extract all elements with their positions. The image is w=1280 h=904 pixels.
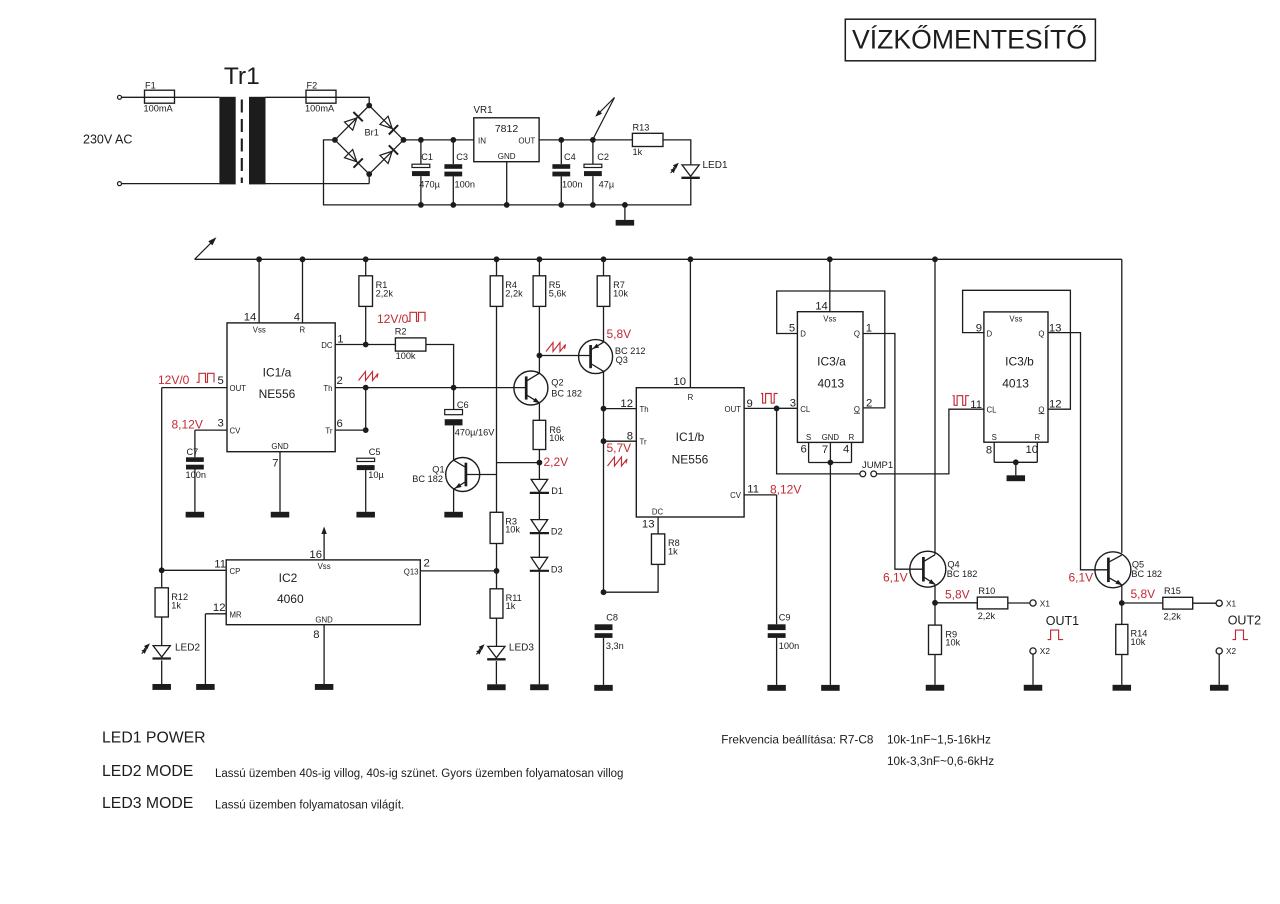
diode D3 (530, 557, 563, 574)
svg-text:10k-1nF~1,5-16kHz: 10k-1nF~1,5-16kHz (887, 733, 991, 747)
svg-text:10: 10 (1026, 444, 1039, 456)
fuse F1 (144, 80, 175, 113)
wire R2 to Th node (426, 345, 454, 388)
capacitor C1 (412, 140, 441, 205)
svg-text:2,2k: 2,2k (376, 289, 394, 299)
label frequency range 2 (887, 754, 994, 768)
wire Q3 base (539, 355, 590, 357)
svg-text:100n: 100n (779, 641, 799, 651)
label LED3 MODE (102, 795, 193, 812)
svg-text:100n: 100n (186, 470, 206, 480)
svg-text:10k-3,3nF~0,6-6kHz: 10k-3,3nF~0,6-6kHz (887, 754, 994, 768)
svg-text:1: 1 (866, 323, 872, 335)
svg-text:47µ: 47µ (599, 179, 615, 189)
svg-text:1: 1 (337, 333, 343, 345)
wire R7 to Q3 emitter (603, 306, 605, 342)
pin 16 Vss IC2 arrow (309, 527, 326, 562)
svg-text:230V AC: 230V AC (83, 133, 132, 147)
svg-text:4013: 4013 (817, 377, 844, 391)
transistor Q2 BC182 (514, 371, 582, 405)
ground D3 (530, 684, 549, 690)
svg-text:13: 13 (642, 519, 655, 531)
svg-text:Th: Th (640, 405, 649, 414)
svg-text:10k: 10k (1131, 637, 1146, 647)
svg-text:R2: R2 (395, 326, 407, 336)
svg-text:NE556: NE556 (672, 453, 709, 467)
svg-text:F1: F1 (145, 80, 156, 90)
wire Q1 emitter to ground (453, 489, 455, 512)
transistor Q4 BC182 (910, 551, 978, 587)
label 230V AC (83, 133, 132, 147)
pin 12 MR IC2 (205, 602, 226, 684)
svg-text:JUMP1: JUMP1 (862, 460, 893, 471)
title box VÍZKŐMENTESÍTŐ (845, 19, 1095, 61)
LED LED3 (476, 643, 534, 660)
pin 2 Th IC1/a wire (335, 375, 526, 390)
svg-text:VÍZKŐMENTESÍTŐ: VÍZKŐMENTESÍTŐ (852, 25, 1087, 55)
label frequency note (721, 733, 874, 747)
pin 7 GND IC1/a (272, 452, 280, 512)
svg-text:10µ: 10µ (368, 470, 384, 480)
wire R15 to X1 (1193, 602, 1216, 604)
label 8,12V at CV (172, 417, 203, 431)
pin 1 DC IC1/a wire (335, 333, 395, 347)
pin 1 Q IC3/a wire (863, 323, 923, 570)
LED LED2 (142, 643, 201, 659)
svg-text:OUT: OUT (230, 384, 247, 393)
resistor R15 (1163, 586, 1193, 621)
svg-text:D: D (987, 330, 993, 339)
svg-text:R15: R15 (1164, 586, 1181, 596)
jumper JUMP1 (860, 460, 893, 477)
svg-text:100mA: 100mA (305, 104, 335, 114)
pin 9 OUT IC1/b wire (744, 398, 797, 412)
wire R12 to LED2 (161, 617, 163, 646)
pin 3 CL IC3/a wire (777, 398, 798, 410)
node C3 top (450, 137, 456, 143)
node C1 bottom (418, 202, 424, 208)
svg-text:LED2 MODE: LED2 MODE (102, 763, 193, 780)
svg-text:8: 8 (313, 629, 319, 641)
capacitor C9 (768, 613, 800, 685)
svg-text:10: 10 (673, 376, 686, 388)
svg-text:CL: CL (800, 405, 811, 414)
svg-text:MR: MR (230, 611, 242, 620)
svg-text:IC1/b: IC1/b (676, 430, 705, 444)
svg-text:12V/0: 12V/0 (377, 312, 409, 326)
wire R6 to 2,2V node (537, 450, 543, 480)
wire F2 to bridge AC top (336, 97, 369, 103)
svg-text:Br1: Br1 (365, 127, 379, 137)
label 8,12V at CV (770, 483, 801, 497)
label LED2 description (215, 768, 623, 780)
svg-text:100n: 100n (562, 179, 582, 189)
pin 8 GND IC2 (313, 625, 324, 684)
svg-text:Vss: Vss (823, 314, 836, 323)
transformer Tr1 (219, 63, 265, 184)
label 5,8V at Q4 (945, 587, 970, 601)
pin 8 Tr IC1/b wire (604, 431, 637, 443)
resistor R2 (395, 326, 426, 361)
wire Q3 collector down (601, 371, 607, 592)
transistor Q1 BC182 (412, 458, 496, 492)
svg-text:OUT1: OUT1 (1046, 614, 1079, 628)
svg-text:IC3/b: IC3/b (1005, 355, 1034, 369)
op-amp-timer IC1/a NE556 (227, 323, 335, 452)
svg-text:14: 14 (815, 301, 828, 313)
svg-text:3: 3 (790, 398, 796, 410)
AC input terminal top (118, 95, 122, 99)
pin 5 OUT IC1/a wire (162, 375, 227, 570)
label 12V/0 at OUT (158, 373, 214, 387)
svg-text:C3: C3 (456, 152, 468, 162)
label OUT2 (1228, 614, 1261, 640)
svg-text:12: 12 (1049, 399, 1062, 411)
wire R4 column down (497, 306, 540, 512)
svg-text:C6: C6 (457, 400, 469, 410)
ground power supply (616, 205, 635, 226)
svg-text:2,2k: 2,2k (978, 611, 996, 621)
svg-text:CL: CL (987, 406, 998, 415)
label frequency range 1 (887, 733, 991, 747)
svg-text:3,3n: 3,3n (606, 641, 624, 651)
svg-text:2: 2 (424, 557, 430, 569)
resistor R13 (632, 123, 663, 157)
timer IC1/b NE556 (636, 388, 744, 517)
svg-text:CV: CV (230, 426, 242, 435)
pin 12 Qbar IC3/b (1049, 399, 1062, 411)
svg-text:1k: 1k (171, 600, 181, 610)
ground C7 (186, 512, 205, 518)
label pulse at OUT (761, 394, 778, 404)
pins 8 10 S R IC3/b (986, 442, 1038, 475)
LED LED1 (670, 160, 728, 178)
svg-text:GND: GND (315, 615, 333, 624)
transistor Q5 BC182 (1095, 552, 1162, 588)
svg-text:GND: GND (498, 152, 516, 161)
wire R5 to Q2 collector (537, 306, 543, 372)
capacitor C7 (186, 447, 206, 512)
svg-text:R13: R13 (633, 123, 650, 133)
svg-text:OUT: OUT (725, 405, 742, 414)
pin 13 Q IC3/b wire (1048, 323, 1108, 570)
svg-text:100k: 100k (396, 351, 416, 361)
svg-text:IC3/a: IC3/a (817, 354, 846, 368)
svg-text:BC 182: BC 182 (1131, 569, 1162, 579)
pins 6 7 4 S GND R IC3/a (800, 442, 851, 465)
svg-text:1k: 1k (668, 547, 678, 557)
svg-text:100n: 100n (455, 179, 475, 189)
ground LED2 (152, 684, 171, 690)
svg-text:6,1V: 6,1V (883, 570, 908, 584)
label 12V/0 at DC (377, 312, 425, 326)
label 2,2V (544, 455, 569, 469)
resistor R1 (359, 256, 393, 344)
svg-text:Q: Q (854, 405, 860, 414)
wire node to IC2 CP (162, 569, 227, 571)
label LED2 MODE (102, 763, 193, 780)
label LED3 description (215, 800, 404, 812)
svg-text:DC: DC (652, 508, 664, 517)
svg-text:D3: D3 (551, 564, 563, 574)
svg-text:GND: GND (822, 433, 840, 442)
svg-text:BC 182: BC 182 (947, 569, 978, 579)
svg-text:LED2: LED2 (175, 643, 200, 654)
svg-text:4013: 4013 (1002, 376, 1029, 390)
ground IC1/a pin7 (271, 512, 290, 518)
pin 9 D IC3/b loop (963, 290, 1071, 409)
svg-text:470µ: 470µ (419, 179, 440, 189)
flip-flop IC3/a 4013 (797, 312, 863, 443)
ground R9 (926, 685, 945, 691)
svg-text:16: 16 (309, 549, 322, 561)
svg-text:Vss: Vss (1009, 314, 1022, 323)
resistor R3 (490, 512, 520, 543)
regulator VR1 7812 (474, 105, 540, 162)
resistor R8 (651, 534, 679, 565)
svg-text:2: 2 (337, 375, 343, 387)
svg-text:2,2k: 2,2k (1164, 611, 1182, 621)
svg-text:IC1/a: IC1/a (263, 366, 292, 380)
svg-text:Q: Q (854, 330, 860, 339)
pin 2 Qbar IC3/a (866, 397, 872, 409)
wire node to R15 (1122, 602, 1163, 604)
AC input terminal bottom (118, 182, 122, 186)
wire R10 to X1 (1008, 602, 1030, 604)
svg-text:5: 5 (218, 375, 224, 387)
node C2 top (590, 137, 596, 143)
svg-text:2,2k: 2,2k (505, 289, 523, 299)
svg-text:Q13: Q13 (404, 567, 419, 576)
capacitor C8 (595, 613, 624, 685)
svg-text:CP: CP (230, 567, 241, 576)
wire AC neutral to transformer primary (122, 183, 220, 185)
pin 13 DC IC1/b (642, 517, 658, 534)
terminal X1 OUT1 (1030, 598, 1050, 608)
svg-text:F2: F2 (307, 80, 318, 90)
svg-text:10k: 10k (549, 433, 564, 443)
svg-text:8,12V: 8,12V (770, 483, 801, 497)
wire X2 to ground (1032, 654, 1034, 685)
svg-text:8,12V: 8,12V (172, 417, 203, 431)
wire Q2 base from Th (0, 0, 1, 1)
terminal X2 OUT1 (1030, 646, 1050, 656)
pin 3 CV IC1/a wire (195, 418, 227, 458)
pin 11 CP IC2 (214, 559, 226, 571)
svg-text:C8: C8 (606, 613, 618, 623)
label 6,1V at Q5 (1069, 570, 1094, 584)
svg-text:6,1V: 6,1V (1069, 570, 1094, 584)
diode D1 (530, 479, 563, 496)
label 6,1V at Q4 (883, 570, 908, 584)
svg-text:Vss: Vss (253, 326, 266, 335)
svg-text:4060: 4060 (277, 592, 304, 606)
+12V rail (195, 259, 1122, 553)
svg-text:C7: C7 (187, 447, 199, 457)
svg-text:LED3 MODE: LED3 MODE (102, 795, 193, 812)
label OUT1 (1046, 614, 1079, 640)
resistor R7 (597, 256, 628, 306)
svg-text:Q: Q (1038, 405, 1044, 414)
svg-text:C9: C9 (779, 613, 791, 623)
resistor R10 (977, 586, 1008, 621)
label sawtooth at Th (359, 372, 379, 381)
counter IC2 4060 (226, 560, 420, 625)
svg-text:13: 13 (1049, 323, 1062, 335)
wire IC3/a GND to ground (829, 463, 831, 685)
svg-text:NE556: NE556 (259, 387, 296, 401)
svg-text:100mA: 100mA (144, 104, 174, 114)
capacitor C2 (584, 140, 615, 205)
svg-text:14: 14 (244, 311, 257, 323)
svg-text:BC 182: BC 182 (412, 474, 443, 484)
wire bridge minus to ground rail (324, 140, 691, 205)
svg-text:2,2V: 2,2V (544, 455, 569, 469)
pin 4 R IC1/a (294, 256, 306, 323)
capacitor C3 (444, 140, 475, 205)
svg-text:5,6k: 5,6k (549, 289, 567, 299)
svg-text:5,8V: 5,8V (1131, 587, 1156, 601)
pin 2 Q13 IC2 (424, 557, 430, 569)
wire D2 to D3 (538, 534, 540, 557)
node OUT to CP (159, 567, 165, 573)
+12V rail arrow (195, 237, 217, 259)
ground C5 (356, 512, 375, 518)
label sawtooth at Q3 base (546, 343, 566, 352)
svg-text:LED1 POWER: LED1 POWER (102, 730, 206, 747)
svg-text:C2: C2 (597, 152, 609, 162)
node C4 top (558, 137, 564, 143)
wire OUT node to JUMP1 (777, 408, 860, 474)
ground X2 OUT2 (1210, 685, 1229, 691)
svg-text:X1: X1 (1040, 598, 1051, 608)
svg-text:Tr: Tr (325, 426, 332, 435)
svg-text:2: 2 (866, 397, 872, 409)
diode D2 (530, 520, 563, 537)
svg-text:IC2: IC2 (279, 571, 298, 585)
flip-flop IC3/b 4013 (984, 312, 1048, 442)
wire C6 to Q1 collector (453, 425, 455, 460)
wire R3 to R11 node (494, 544, 500, 589)
ground C8 (594, 685, 613, 691)
svg-text:Q4: Q4 (947, 560, 959, 570)
wire R14 to ground (1121, 655, 1123, 685)
wire R13 to LED1 (663, 140, 691, 165)
svg-text:5,7V: 5,7V (607, 441, 632, 455)
svg-text:R10: R10 (978, 586, 995, 596)
svg-text:R: R (300, 326, 306, 335)
svg-text:470µ/16V: 470µ/16V (455, 427, 495, 437)
bridge rectifier Br1 (332, 103, 406, 177)
svg-text:11: 11 (747, 483, 759, 495)
svg-text:C1: C1 (421, 152, 433, 162)
svg-text:LED1: LED1 (703, 160, 728, 171)
wire R8 to C8 node (601, 564, 659, 595)
wire D3 to ground (538, 572, 540, 684)
resistor R14 (1116, 603, 1148, 655)
svg-text:8: 8 (986, 445, 992, 457)
resistor R9 (929, 603, 961, 655)
ground LED3 (487, 684, 506, 690)
svg-text:VR1: VR1 (474, 105, 493, 116)
node C3 bottom (450, 202, 456, 208)
svg-text:10k: 10k (945, 638, 960, 648)
ground R14 (1113, 685, 1132, 691)
label LED1 POWER (102, 730, 206, 747)
ground Q1 (444, 512, 463, 518)
svg-text:R: R (688, 393, 694, 402)
svg-text:Vss: Vss (318, 562, 331, 571)
wire VR1 GND to ground rail (506, 162, 508, 205)
svg-text:R: R (1034, 433, 1040, 442)
wire Q4 emitter node (932, 584, 938, 605)
svg-text:Tr: Tr (640, 438, 647, 447)
node C4 bottom (558, 202, 564, 208)
wire transformer secondary bottom to bridge AC bottom (266, 176, 370, 184)
wire D1 to D2 (538, 494, 540, 520)
svg-text:Q: Q (1038, 330, 1044, 339)
pin 5 D IC3/a loop (777, 291, 885, 408)
wire X2 to ground OUT2 (1218, 654, 1220, 685)
svg-text:C5: C5 (369, 447, 381, 457)
svg-text:Frekvencia beállítása: R7-C8: Frekvencia beállítása: R7-C8 (721, 733, 874, 747)
wire node to R10 (935, 602, 977, 604)
wire Th to Tr link (365, 388, 367, 431)
svg-text:10k: 10k (505, 524, 520, 534)
resistor R11 (490, 589, 522, 618)
capacitor C4 (552, 140, 582, 205)
capacitor C6 (445, 388, 495, 438)
svg-text:12: 12 (620, 398, 633, 410)
svg-text:Lassú üzemben folyamatosan vil: Lassú üzemben folyamatosan világít. (215, 800, 404, 812)
svg-text:GND: GND (271, 442, 289, 451)
pin 14 Vss IC3/a (815, 256, 832, 312)
svg-text:6: 6 (800, 444, 806, 456)
svg-text:Q2: Q2 (551, 378, 563, 388)
transistor Q3 BC212 (579, 340, 646, 374)
svg-text:5,8V: 5,8V (945, 587, 970, 601)
wire IC2 Q13 to node (420, 570, 496, 572)
label 5,8V at Q3 (607, 327, 632, 341)
svg-text:10k: 10k (613, 289, 628, 299)
label pulse at CL IC3/b (953, 396, 970, 406)
svg-text:IN: IN (478, 136, 486, 145)
svg-text:5: 5 (789, 323, 795, 335)
svg-text:D1: D1 (551, 486, 563, 496)
wire LED2 to ground (161, 660, 163, 684)
svg-text:CV: CV (730, 491, 742, 500)
svg-text:5,8V: 5,8V (607, 327, 632, 341)
pin 14 Vss IC1/a (244, 256, 262, 323)
wire F1 to transformer primary (175, 96, 220, 98)
off-sheet arrow 12V rail tap (593, 98, 615, 140)
svg-text:LED3: LED3 (509, 643, 534, 654)
svg-text:X2: X2 (1226, 646, 1237, 656)
terminal X1 OUT2 (1216, 598, 1236, 608)
ground IC3/a (821, 685, 840, 691)
svg-text:Th: Th (323, 384, 332, 393)
pin 11 CL IC3/b (970, 399, 982, 411)
wire R9 to ground (934, 655, 936, 685)
label 5,7V at Tr (607, 441, 632, 466)
svg-text:9: 9 (747, 398, 753, 410)
wire AC live to F1 (122, 96, 145, 98)
ground X2 OUT1 (1024, 685, 1043, 691)
svg-text:11: 11 (214, 559, 226, 571)
svg-text:R: R (849, 433, 855, 442)
fuse F2 (305, 80, 336, 113)
svg-text:C4: C4 (564, 152, 576, 162)
